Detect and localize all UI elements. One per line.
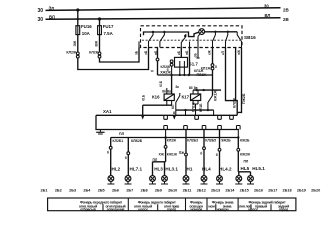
pin arrow 2 xyxy=(173,115,177,119)
svg-text:номера: номера xyxy=(190,207,202,211)
ground xyxy=(99,130,101,132)
svg-text:зБ: зБ xyxy=(135,50,139,55)
svg-text:ХЖ: ХЖ xyxy=(158,153,164,157)
svg-text:8в: 8в xyxy=(167,89,171,93)
svg-text:H1: H1 xyxy=(187,166,193,171)
svg-text:SB16: SB16 xyxy=(244,35,256,40)
svg-text:8: 8 xyxy=(173,111,175,115)
coil feed wires xyxy=(166,88,168,94)
svg-text:ВЛ: ВЛ xyxy=(265,13,271,18)
switch S1.7 xyxy=(175,57,188,67)
svg-text:К17: К17 xyxy=(182,95,190,100)
svg-text:2В: 2В xyxy=(283,17,290,22)
svg-text:10A: 10A xyxy=(82,31,91,36)
wire 189.5 terminal down to y75 xyxy=(189,48,191,76)
svg-text:ном: ном xyxy=(208,204,215,208)
svg-text:2Б17: 2Б17 xyxy=(268,189,277,193)
svg-text:2Б10: 2Б10 xyxy=(168,189,177,193)
svg-text:2Б6: 2Б6 xyxy=(112,189,119,193)
svg-text:К16: К16 xyxy=(152,95,160,100)
contact 6 xyxy=(237,32,241,48)
svg-text:кБ: кБ xyxy=(177,50,181,55)
svg-text:КЛБ2Б: КЛБ2Б xyxy=(131,139,143,143)
svg-text:2Б5: 2Б5 xyxy=(98,189,105,193)
svg-text:отбрасыв: отбрасыв xyxy=(80,207,97,211)
svg-text:пЖ: пЖ xyxy=(237,50,241,55)
fuse FU16 xyxy=(76,26,80,35)
svg-text:2Б3: 2Б3 xyxy=(69,189,76,193)
table text xyxy=(79,200,289,211)
svg-text:б: б xyxy=(125,156,127,160)
svg-text:кЖ: кЖ xyxy=(208,50,212,55)
svg-text:8б: 8б xyxy=(189,86,193,90)
svg-text:КЛ2Ж: КЛ2Ж xyxy=(167,139,177,143)
svg-text:ПЖ2Б: ПЖ2Б xyxy=(242,93,246,104)
svg-text:б: б xyxy=(215,65,217,69)
relay K17 coil xyxy=(191,94,201,101)
svg-text:2Б15: 2Б15 xyxy=(240,189,249,193)
svg-text:2Б18: 2Б18 xyxy=(283,189,292,193)
coil bottoms K17 xyxy=(193,101,198,116)
wire FU17 to switch feed xyxy=(100,48,140,63)
wire terminal 224.7 down xyxy=(226,48,238,116)
horizontal distribution wire y75 xyxy=(158,74,213,76)
svg-text:FU17: FU17 xyxy=(103,24,114,29)
svg-text:2Б12: 2Б12 xyxy=(197,189,206,193)
svg-text:HL4.2: HL4.2 xyxy=(219,166,232,171)
svg-text:2Б19: 2Б19 xyxy=(297,189,306,193)
connector on 157.5 xyxy=(156,58,159,61)
svg-text:HL5: HL5 xyxy=(241,166,250,171)
wire drop to FU17 xyxy=(99,19,101,26)
svg-text:HL5.1: HL5.1 xyxy=(252,166,265,171)
svg-text:8б: 8б xyxy=(162,89,166,93)
svg-text:КЛ2Ж: КЛ2Ж xyxy=(66,50,77,54)
svg-text:б: б xyxy=(216,153,218,157)
feed bus y90 xyxy=(193,89,221,91)
connector pair on FU16 line xyxy=(76,52,79,55)
svg-text:ПЛ2Ж: ПЛ2Ж xyxy=(197,73,208,77)
wire terminal 157.5 down xyxy=(157,48,159,76)
contact 3 xyxy=(184,35,186,37)
contact 2 xyxy=(163,31,165,33)
wire FU16 to switch feed xyxy=(78,48,149,70)
pins bottom xyxy=(164,126,168,130)
terminal wire 189.5 xyxy=(189,42,191,48)
svg-text:КЛ2Б1: КЛ2Б1 xyxy=(113,139,124,143)
wire terminal 241.5 down xyxy=(237,48,241,113)
relay K17 contact xyxy=(208,96,213,111)
svg-text:б: б xyxy=(107,151,109,155)
lamp HL2 feed xyxy=(110,138,112,176)
svg-text:кЛ: кЛ xyxy=(221,50,225,55)
node dot xyxy=(170,74,172,76)
svg-text:2Б9: 2Б9 xyxy=(155,189,162,193)
svg-text:ПЖ: ПЖ xyxy=(179,151,185,155)
svg-text:КЛ2Б5: КЛ2Б5 xyxy=(205,138,216,142)
wire below FU16 xyxy=(77,35,79,52)
split bar xyxy=(153,162,166,176)
svg-text:ПЛ: ПЛ xyxy=(119,132,125,136)
svg-text:2Б20: 2Б20 xyxy=(311,189,320,193)
lower bus y110 xyxy=(176,109,214,111)
svg-text:FU16: FU16 xyxy=(81,24,92,29)
svg-text:XA1: XA1 xyxy=(103,109,112,114)
svg-text:ЭЖ: ЭЖ xyxy=(73,40,77,46)
coil feed wires K17 xyxy=(193,90,198,94)
lamp terminal wire xyxy=(198,34,200,58)
lamp HL5 pair feed xyxy=(237,138,239,172)
svg-text:сБ: сБ xyxy=(194,53,198,58)
terminal wire 139 xyxy=(138,42,140,48)
wire drop to FU16 xyxy=(77,10,79,26)
coil bottoms K16 to XA1 xyxy=(167,101,172,106)
svg-text:пБ: пБ xyxy=(185,50,189,55)
lamp HL7.1 feed xyxy=(127,138,129,176)
svg-text:ВЛ: ВЛ xyxy=(49,14,55,19)
node junction crossing at wire B xyxy=(77,18,79,20)
contact 1 xyxy=(152,31,154,33)
svg-text:номерн: номерн xyxy=(217,207,229,211)
contact 4 xyxy=(214,31,216,33)
svg-text:2Б16: 2Б16 xyxy=(254,189,263,193)
contact 5 xyxy=(227,31,229,33)
bus drops to XA1 xyxy=(186,110,214,115)
svg-text:2Б4: 2Б4 xyxy=(83,189,91,193)
svg-text:Зк: Зк xyxy=(175,85,179,89)
pin arrow xyxy=(141,115,145,119)
svg-text:город: город xyxy=(279,207,289,211)
svg-text:S1.7: S1.7 xyxy=(189,62,199,67)
svg-text:КЛ2Б3: КЛ2Б3 xyxy=(187,138,198,142)
node dot xyxy=(188,74,190,76)
svg-text:2Б8: 2Б8 xyxy=(141,189,148,193)
svg-text:2Б11: 2Б11 xyxy=(183,189,192,193)
svg-text:HL4: HL4 xyxy=(202,166,211,171)
switch SB16 dashed box xyxy=(141,26,243,48)
svg-text:7.5A: 7.5A xyxy=(104,31,114,36)
svg-text:30: 30 xyxy=(37,17,43,23)
svg-text:HL7.1: HL7.1 xyxy=(130,166,143,171)
terminal labels xyxy=(135,50,242,58)
connector pair on K16 feed xyxy=(171,60,173,76)
svg-text:КЖ1Ж: КЖ1Ж xyxy=(213,90,217,101)
svg-text:КЖ1Ж: КЖ1Ж xyxy=(167,153,178,157)
svg-text:эБ: эБ xyxy=(144,50,148,55)
svg-text:шоссе: шоссе xyxy=(248,207,258,211)
wire 30 bus A xyxy=(46,8,281,11)
svg-text:б: б xyxy=(167,68,169,72)
relay K16 contact xyxy=(176,93,180,115)
lamp HL4.2 feed xyxy=(219,130,221,176)
svg-text:КЖ2Б: КЖ2Б xyxy=(240,138,250,142)
lamp feed bus y137.5 xyxy=(111,137,239,139)
svg-text:2Б2: 2Б2 xyxy=(55,189,62,193)
svg-text:2Б1: 2Б1 xyxy=(41,189,48,193)
wire below FU17 xyxy=(99,35,101,52)
svg-text:К1Б: К1Б xyxy=(141,94,145,101)
legend table xyxy=(48,198,296,211)
connector pair on FU17 line xyxy=(98,52,101,55)
svg-text:б: б xyxy=(150,70,154,72)
relay K16 coil xyxy=(164,94,174,101)
svg-text:б: б xyxy=(200,152,202,156)
svg-text:2Б7: 2Б7 xyxy=(126,189,133,193)
connector pair on 212.5 xyxy=(211,64,214,67)
node junction wire B to FU17 xyxy=(98,17,101,20)
svg-text:HL3: HL3 xyxy=(154,166,163,171)
wire from SB16 235.6 to XA1 xyxy=(235,48,237,101)
fuse FU17 xyxy=(98,26,102,35)
wire terminal 181.3 to S1.7 xyxy=(180,48,182,58)
split bar xyxy=(238,172,250,176)
svg-text:КЛ2К: КЛ2К xyxy=(89,50,99,54)
svg-text:К1Б: К1Б xyxy=(159,80,163,87)
wire 30 bus B xyxy=(46,18,281,20)
lamp HL3 pair feed xyxy=(165,138,167,162)
svg-text:HL2: HL2 xyxy=(112,166,121,171)
coupling dashed line xyxy=(142,39,240,41)
svg-text:Эл: Эл xyxy=(49,5,55,10)
svg-text:ПЛ: ПЛ xyxy=(153,158,158,162)
svg-text:2Б14: 2Б14 xyxy=(225,189,235,193)
svg-text:КЖ2Ж: КЖ2Ж xyxy=(240,153,251,157)
switch bus xyxy=(144,32,199,37)
svg-text:ПЛ: ПЛ xyxy=(244,159,249,163)
svg-text:КЛ: КЛ xyxy=(171,104,175,109)
wire XA1 to bus xyxy=(166,130,239,138)
wire terminal 212.5 down xyxy=(212,48,214,96)
svg-text:2В: 2В xyxy=(283,8,290,13)
svg-text:30: 30 xyxy=(37,8,43,14)
pins top xyxy=(164,115,168,119)
svg-text:шоссе: шоссе xyxy=(138,207,148,211)
switch lamp xyxy=(199,29,205,35)
svg-text:HL3.1: HL3.1 xyxy=(165,166,178,171)
svg-text:ВЖ: ВЖ xyxy=(95,40,99,46)
svg-text:КЛ1Ж: КЛ1Ж xyxy=(201,66,212,70)
svg-text:освещения: освещения xyxy=(107,207,125,211)
svg-text:город: город xyxy=(167,207,177,211)
node junction wire A to FU16 xyxy=(76,8,79,11)
svg-text:ЭЖ2Б: ЭЖ2Б xyxy=(221,138,231,142)
svg-text:30: 30 xyxy=(264,3,269,8)
svg-text:2Б13: 2Б13 xyxy=(211,189,220,193)
